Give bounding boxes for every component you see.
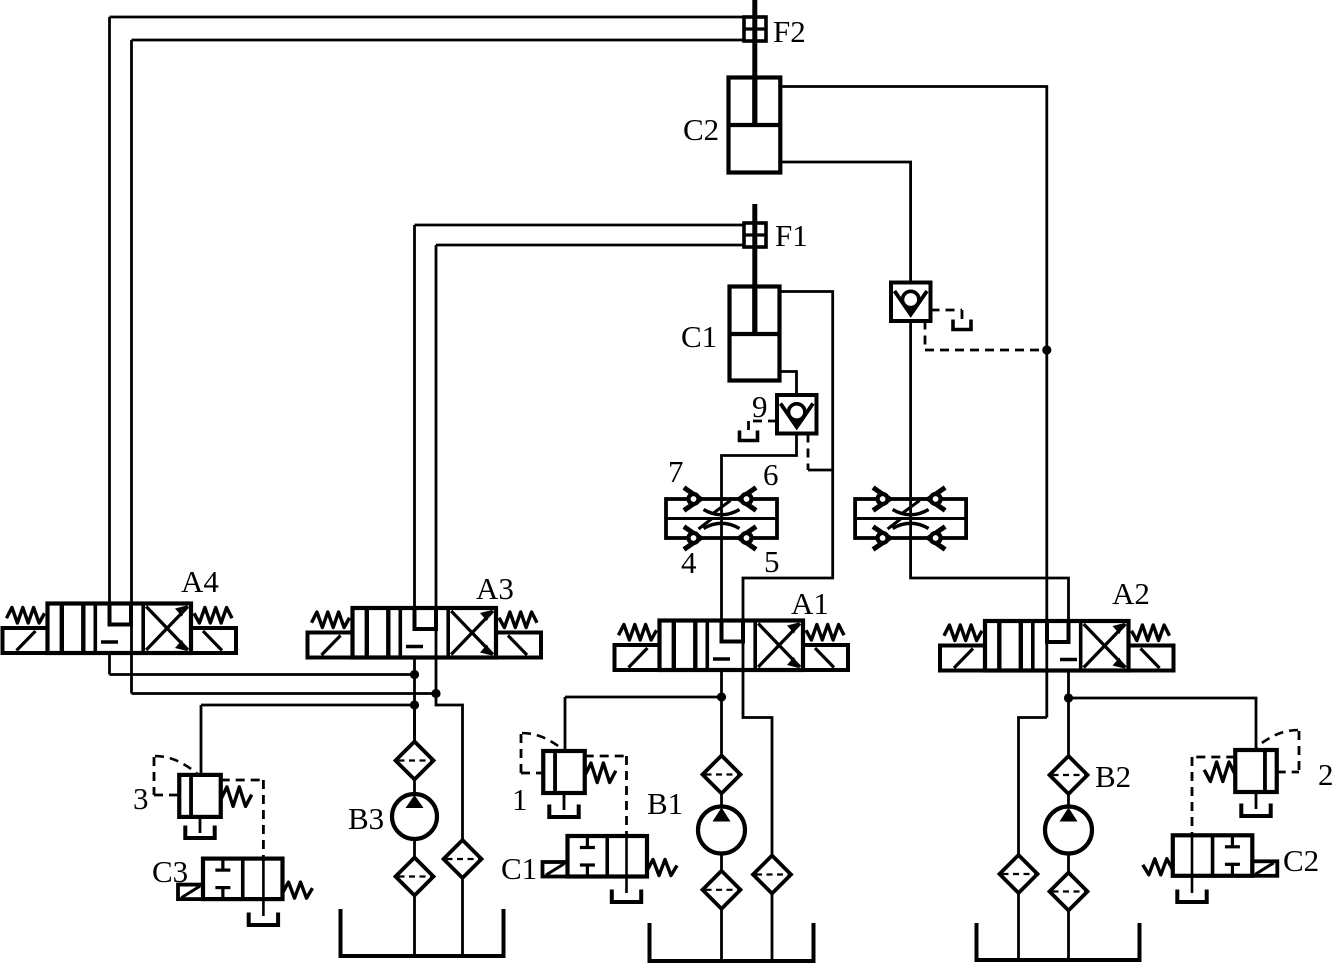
svg-text:4: 4 bbox=[681, 545, 697, 580]
node junction A3 port2 bbox=[431, 689, 440, 698]
relief valve 1 bbox=[543, 751, 616, 793]
tank left bbox=[341, 909, 504, 956]
tank drain cup relief-2 bbox=[1241, 804, 1270, 817]
drain relief-2 bbox=[1255, 792, 1258, 809]
filter F1 bbox=[744, 223, 766, 247]
label 2 bbox=[1318, 757, 1334, 792]
wire B1 pump column bbox=[720, 697, 723, 961]
svg-text:5: 5 bbox=[764, 544, 780, 579]
wire B3 pump column bbox=[413, 705, 416, 956]
wire B3 return tail bbox=[461, 878, 464, 956]
label 7 bbox=[668, 454, 684, 489]
wire A2 port-1 through bbox=[1045, 621, 1048, 718]
check node right-a bbox=[875, 489, 890, 509]
wire A1 port-2 bend to tank bbox=[743, 670, 772, 856]
wire relief-2 to C2 dashed bbox=[1192, 757, 1235, 835]
throttle-check assembly right bbox=[855, 499, 966, 538]
wire F2 supply rail upper bbox=[110, 16, 745, 19]
wire A4 port-1 riser bbox=[108, 17, 111, 675]
relief valve 2 bbox=[1204, 750, 1277, 792]
pilot-check valve 9 bbox=[777, 395, 817, 434]
wire relief-3 drop bbox=[200, 705, 203, 775]
wire F2 supply rail lower bbox=[132, 39, 745, 42]
node junction B2 outlet bbox=[1064, 693, 1073, 702]
wire C1 top port bbox=[743, 292, 833, 621]
wire relief-3 to C3 dashed bbox=[221, 780, 264, 859]
label C3 bbox=[152, 854, 188, 889]
pilot relief-3 dashed bbox=[154, 756, 197, 795]
wire check-8 to assembly bbox=[909, 321, 912, 500]
wire A1 port-2 through bbox=[742, 621, 745, 671]
filter B2 inlet bbox=[1050, 756, 1088, 794]
filter B2 suction bbox=[1050, 873, 1088, 911]
wire B3 return bend bbox=[436, 694, 463, 841]
tank drain cup check-9 bbox=[740, 431, 758, 441]
wire C1 path bbox=[625, 836, 628, 893]
svg-text:B3: B3 bbox=[348, 801, 384, 836]
throttle-check assembly left bbox=[666, 499, 777, 538]
wire A3 port-2 riser bbox=[435, 245, 438, 694]
wire pilot check-9 bbox=[808, 434, 833, 471]
node junction B3 outlet bbox=[410, 700, 419, 709]
wire B2 return tail bbox=[1017, 893, 1020, 960]
solenoid valve C2 bbox=[1143, 835, 1278, 876]
wire bus A4-A3 upper bbox=[110, 673, 415, 676]
solenoid valve C3 bbox=[178, 859, 313, 900]
label 3 bbox=[133, 781, 149, 816]
wire B2 pump column bbox=[1067, 698, 1070, 960]
valve A2 bbox=[940, 621, 1174, 671]
wire C1 bottom port bbox=[780, 372, 797, 396]
pilot relief-2 dashed bbox=[1256, 730, 1299, 772]
wire C3 path bbox=[262, 859, 265, 916]
tank centre bbox=[650, 923, 814, 961]
svg-text:3: 3 bbox=[133, 781, 149, 816]
wire A4 port-2 riser bbox=[130, 40, 133, 694]
check node right-c bbox=[875, 528, 890, 548]
label B3 bbox=[348, 801, 384, 836]
wire C2 bottom port bbox=[780, 162, 910, 283]
check node right-b bbox=[929, 489, 944, 509]
valve A3 bbox=[308, 608, 542, 658]
pump B2 bbox=[1045, 807, 1092, 854]
wire relief-3 branch bbox=[201, 704, 415, 707]
tank drain cup check-8 bbox=[953, 320, 971, 330]
label C2 cylinder bbox=[683, 112, 719, 147]
wire assembly-R to A2 bbox=[911, 538, 1069, 642]
wire F1 rail upper bbox=[415, 224, 745, 227]
drain relief-1 bbox=[563, 793, 566, 810]
wire drain check-8 dashed bbox=[931, 310, 963, 320]
filter B3 inlet bbox=[396, 742, 434, 780]
solenoid valve C1 bbox=[543, 836, 678, 877]
label F2 bbox=[773, 14, 806, 49]
wire drain check-9 dashed bbox=[749, 421, 778, 431]
svg-text:F1: F1 bbox=[775, 218, 808, 253]
tank drain cup relief-3 bbox=[185, 826, 214, 839]
tank drain cup C3 bbox=[249, 913, 278, 926]
svg-text:C3: C3 bbox=[152, 854, 188, 889]
wire A3 port-1 riser bbox=[413, 225, 416, 742]
svg-text:C1: C1 bbox=[501, 851, 537, 886]
filter B1 inlet bbox=[703, 756, 741, 794]
pump B3 bbox=[392, 794, 437, 839]
wire A1 port-1 lower bbox=[720, 670, 723, 697]
wire relief-2 branch bbox=[1069, 698, 1257, 750]
check node right-d bbox=[929, 528, 944, 548]
pilot-check valve right bbox=[891, 283, 931, 322]
filter B1 suction bbox=[703, 871, 741, 909]
wire relief-1 branch bbox=[565, 696, 722, 699]
wire bus A4-A3 lower bbox=[132, 692, 437, 695]
label A2 bbox=[1112, 576, 1150, 611]
svg-text:F2: F2 bbox=[773, 14, 806, 49]
wire relief-1 to C1 dashed bbox=[585, 756, 627, 836]
svg-text:A1: A1 bbox=[791, 586, 829, 621]
svg-text:B2: B2 bbox=[1095, 759, 1131, 794]
check node 4 bbox=[686, 528, 701, 548]
svg-text:A3: A3 bbox=[476, 571, 514, 606]
valve A1 bbox=[615, 621, 849, 671]
tank drain cup C2 bbox=[1177, 890, 1206, 903]
wire C2 path bbox=[1191, 835, 1194, 893]
svg-text:A4: A4 bbox=[181, 564, 219, 599]
relief valve 3 bbox=[179, 775, 251, 817]
label 9 bbox=[752, 389, 768, 424]
wire C2 rod bbox=[752, 0, 757, 123]
filter B2 return bbox=[1000, 855, 1038, 893]
svg-text:6: 6 bbox=[763, 457, 779, 492]
svg-text:B1: B1 bbox=[647, 786, 683, 821]
tank drain cup C1 bbox=[612, 890, 641, 903]
filter F2 bbox=[744, 17, 766, 41]
wire A1 port-1 riser bbox=[720, 538, 723, 642]
wire relief-1 drop bbox=[564, 697, 567, 751]
label 6 bbox=[763, 457, 779, 492]
wire C2 top port bbox=[780, 87, 1047, 622]
wire pilot check-8 dashed bbox=[925, 321, 1047, 351]
label C1 cylinder bbox=[681, 319, 717, 354]
label 1 bbox=[512, 782, 528, 817]
label A3 bbox=[476, 571, 514, 606]
svg-text:A2: A2 bbox=[1112, 576, 1150, 611]
svg-text:C2: C2 bbox=[1283, 843, 1319, 878]
label C1 valve bbox=[501, 851, 537, 886]
wire B1 return tail bbox=[771, 894, 774, 962]
check node 7 bbox=[686, 489, 701, 509]
node junction pilot check-8 bbox=[1042, 345, 1051, 354]
filter B3 suction bbox=[396, 858, 434, 896]
check node 5 bbox=[740, 528, 755, 548]
svg-text:7: 7 bbox=[668, 454, 684, 489]
wire F1 rail lower bbox=[436, 244, 744, 247]
cylinder C2 bbox=[729, 78, 781, 173]
pump B1 bbox=[698, 807, 745, 854]
label A1 bbox=[791, 586, 829, 621]
wire check-9 outlet bbox=[722, 434, 797, 500]
label B2 bbox=[1095, 759, 1131, 794]
node junction A3 port1 upper bbox=[410, 670, 419, 679]
svg-text:9: 9 bbox=[752, 389, 768, 424]
label C2 valve bbox=[1283, 843, 1319, 878]
node junction B1 outlet bbox=[717, 692, 726, 701]
label 4 bbox=[681, 545, 697, 580]
cylinder C1 bbox=[730, 287, 780, 381]
svg-text:C1: C1 bbox=[681, 319, 717, 354]
tank right bbox=[977, 923, 1140, 960]
filter B1 return bbox=[753, 856, 791, 894]
svg-text:1: 1 bbox=[512, 782, 528, 817]
label A4 bbox=[181, 564, 219, 599]
wire A2 port-1 bend to tank bbox=[1019, 718, 1047, 856]
wire C1 rod bbox=[752, 204, 757, 332]
drain relief-3 bbox=[199, 817, 202, 833]
filter B3 return bbox=[444, 840, 482, 878]
svg-text:C2: C2 bbox=[683, 112, 719, 147]
label 5 bbox=[764, 544, 780, 579]
valve A4 bbox=[3, 604, 237, 654]
wire assembly-L through bbox=[720, 499, 723, 538]
tank drain cup relief-1 bbox=[549, 805, 578, 818]
label B1 bbox=[647, 786, 683, 821]
pilot relief-1 dashed bbox=[521, 733, 564, 773]
wire A2 port-2 lower bbox=[1067, 671, 1070, 699]
svg-text:2: 2 bbox=[1318, 757, 1334, 792]
wire assembly-R through bbox=[909, 499, 912, 538]
check node 6 bbox=[740, 489, 755, 509]
label F1 bbox=[775, 218, 808, 253]
